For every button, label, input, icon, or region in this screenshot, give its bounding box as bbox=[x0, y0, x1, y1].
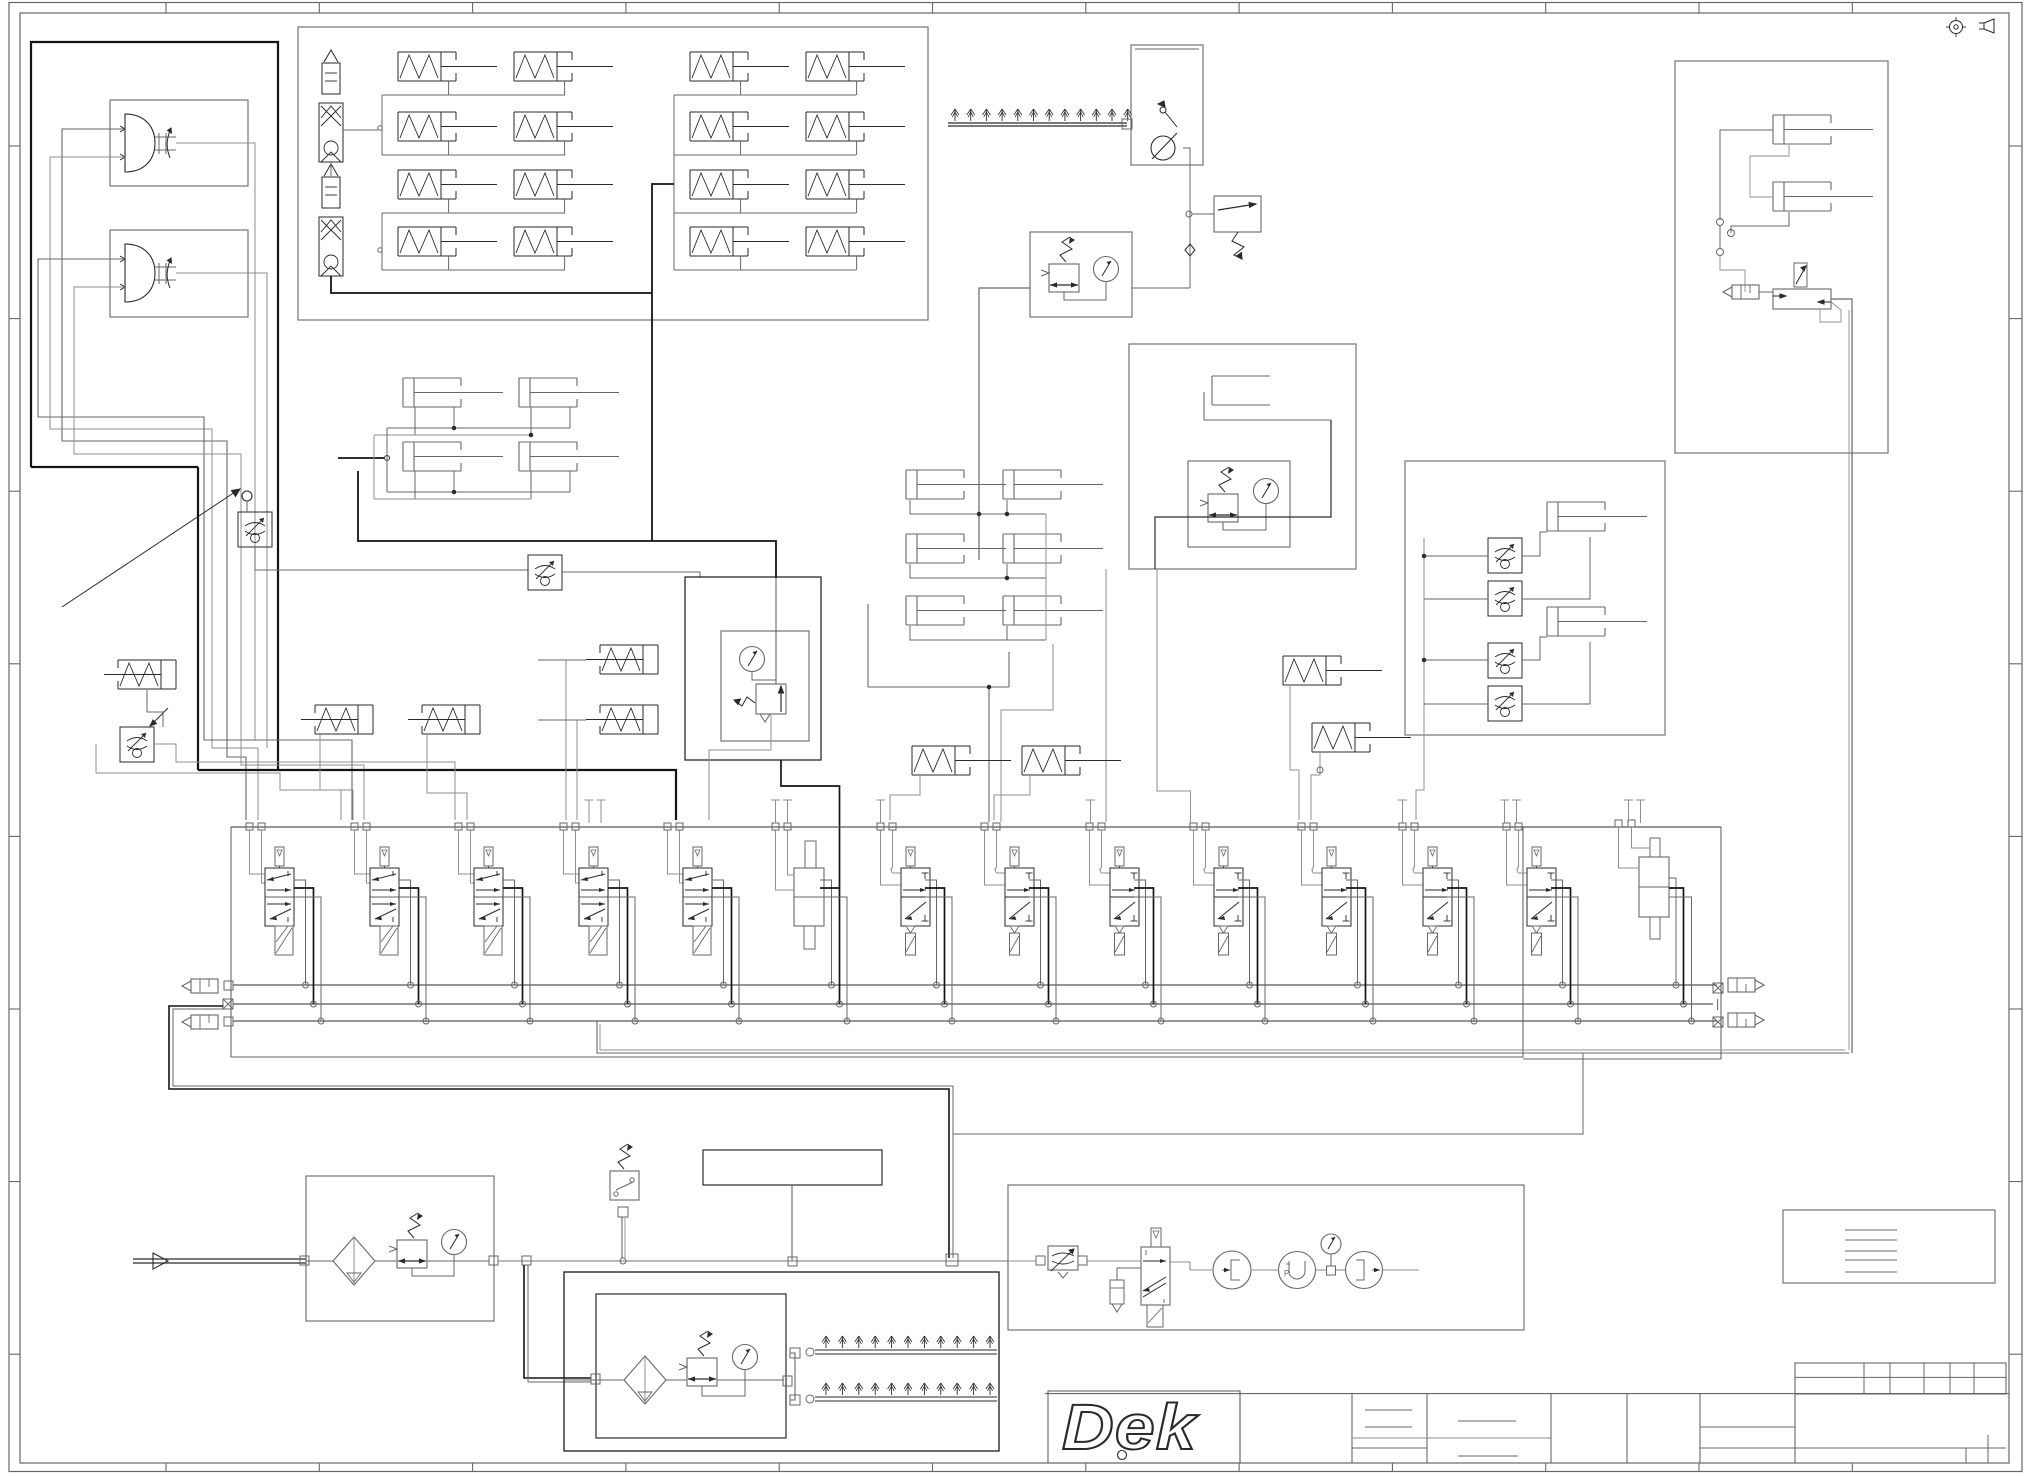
clamp bracket symbol bbox=[1204, 376, 1331, 420]
station 11 drops bbox=[1346, 880, 1376, 1024]
supply feed double line left bbox=[169, 1006, 953, 1258]
cylinder TR1 bbox=[1773, 115, 1873, 144]
cylinder C32 stem bbox=[740, 141, 742, 155]
TR outlet wire bbox=[1831, 299, 1852, 1053]
wire across to FC2 bbox=[345, 569, 528, 571]
station 8 drops bbox=[1029, 880, 1059, 1024]
TR valve setting arrow bbox=[1794, 263, 1807, 287]
air supply inlet arrow bbox=[133, 1253, 306, 1269]
two-pressure valve V1 body bbox=[120, 114, 155, 172]
aux line to right bbox=[953, 1053, 1583, 1134]
cylinder C34 stem bbox=[740, 256, 742, 270]
top right enclosure bbox=[1675, 61, 1888, 453]
station 13 drops bbox=[1551, 880, 1581, 1024]
BR reg connectors bbox=[1036, 1256, 1087, 1265]
FRL1 box bbox=[306, 1176, 494, 1321]
cylinder C33 stem bbox=[740, 199, 742, 213]
flow control H21 bbox=[1488, 643, 1522, 678]
right exhaust silencer 1 bbox=[1728, 978, 1764, 992]
valve station 12 (3/2) bbox=[1399, 823, 1452, 955]
PS1 zigzag bbox=[618, 1144, 633, 1169]
cylinder C13 stem bbox=[448, 199, 450, 213]
valve station 14 block bbox=[1615, 820, 1669, 939]
station 14 drops bbox=[1669, 878, 1695, 1024]
black stub node bbox=[338, 456, 390, 461]
spring cylinder C34 bbox=[690, 227, 789, 256]
station 2 drops bbox=[399, 880, 429, 1024]
SL5 feed bbox=[576, 720, 578, 820]
filter check unit FU2 bbox=[319, 164, 343, 276]
group AB risers bbox=[374, 428, 387, 499]
FRL1 filter bbox=[333, 1237, 375, 1285]
flow control H22 bbox=[1488, 686, 1522, 721]
group B collectors bbox=[374, 471, 570, 499]
pressure switch PS1 bbox=[610, 1171, 639, 1200]
SL5 rod line bbox=[538, 719, 586, 721]
right exhaust silencer 2 bbox=[1728, 1013, 1764, 1027]
FRL3 relief zigzag bbox=[1219, 467, 1234, 492]
nozzle bar connector bbox=[1122, 119, 1132, 129]
mid box gauge stem bbox=[752, 672, 776, 680]
FU1 output wire bbox=[343, 129, 378, 131]
cylinder C41 stem bbox=[856, 81, 858, 95]
left box wire bundle 1 bbox=[62, 129, 246, 820]
spring cylinder CL1 bbox=[104, 660, 176, 689]
wire FC3 output bbox=[154, 744, 455, 820]
border zone ticks bottom bbox=[166, 1463, 1852, 1472]
lower regulator bbox=[679, 1358, 717, 1386]
wire FC1 down bbox=[255, 547, 345, 570]
valve V1 output restrictor bbox=[155, 128, 176, 158]
lower filter bbox=[624, 1356, 666, 1404]
cylinder A2 bbox=[519, 378, 619, 407]
left silencer 2 connector bbox=[224, 1017, 233, 1026]
BR valve pilot bbox=[1151, 1228, 1161, 1247]
FRL3 box bbox=[1188, 461, 1290, 547]
nozzle bar B bbox=[815, 1383, 997, 1401]
lower gauge bbox=[733, 1345, 758, 1370]
SL4 feed bbox=[565, 660, 567, 820]
left box wire bundle 4 bbox=[74, 287, 364, 820]
mid box black outlet bbox=[781, 760, 840, 888]
BR flow sensor U bbox=[1279, 1252, 1316, 1289]
black drop from top box bbox=[651, 293, 653, 541]
FRL1 regulator bbox=[389, 1240, 427, 1268]
mid box outlet bbox=[709, 714, 771, 820]
spring cylinder C12 bbox=[398, 112, 497, 141]
spring cylinder C33 bbox=[690, 170, 789, 199]
FU1 to FU2 wire bbox=[330, 162, 332, 176]
FRL2 relief zigzag bbox=[1060, 237, 1075, 262]
TR wiring bbox=[1717, 130, 1790, 292]
BR valve body bbox=[1141, 1247, 1170, 1305]
spring cylinder C11 bbox=[398, 52, 497, 81]
supply junction node bbox=[946, 1254, 958, 1266]
title block main bbox=[1045, 1391, 2009, 1463]
FRL1 inlet connector bbox=[300, 1256, 309, 1265]
cylinder B2 bbox=[519, 442, 619, 471]
left box wire bundle 2 bbox=[50, 157, 258, 820]
FRL2 internal wire bbox=[1064, 282, 1106, 300]
bottom right box bbox=[1008, 1185, 1524, 1330]
flow control H12 bbox=[1488, 581, 1522, 616]
SL2 feed bbox=[320, 735, 353, 820]
cylinder C42 stem bbox=[856, 141, 858, 155]
lower nozzle unit box bbox=[564, 1272, 999, 1451]
branch to lower unit bbox=[524, 1265, 591, 1382]
nozzle connector B bbox=[790, 1395, 800, 1405]
filter check unit FU1 bbox=[319, 50, 343, 162]
mid gauge bbox=[740, 647, 765, 672]
cylinder C43 stem bbox=[856, 199, 858, 213]
flow control H11 bbox=[1488, 538, 1522, 573]
station 9 drops bbox=[1134, 880, 1164, 1024]
FRL3 crossing wire bbox=[1155, 420, 1331, 569]
FRL3 gauge bbox=[1254, 479, 1279, 504]
spring cylinder SR3 bbox=[1283, 656, 1382, 685]
station 4 drops bbox=[608, 880, 638, 1024]
FRL2 gauge bbox=[1094, 257, 1119, 282]
check node diamond bbox=[1185, 244, 1195, 256]
two-pressure valve V2 body bbox=[120, 244, 155, 302]
spring cylinder C13 bbox=[398, 170, 497, 199]
work rail 1 bbox=[233, 984, 1717, 986]
station 12 drops bbox=[1447, 880, 1477, 1024]
wire node to FC1 bbox=[246, 501, 248, 512]
vacuum unit lever bbox=[1158, 101, 1177, 127]
black wire to station 5 bbox=[198, 770, 676, 820]
cylinder C21 stem bbox=[564, 81, 566, 95]
left silencer 1 connector bbox=[224, 981, 233, 990]
FRL3 regulator bbox=[1200, 494, 1238, 522]
vacuum unit box bbox=[1131, 45, 1203, 165]
valve station 7 (3/2) bbox=[877, 823, 930, 955]
FRL2 box top bbox=[1030, 232, 1132, 317]
black cross wire bbox=[358, 471, 776, 578]
FRL1 wires bbox=[306, 1255, 489, 1276]
spring cylinder C24 bbox=[514, 227, 613, 256]
lower unit wires bbox=[564, 1353, 795, 1400]
nozzle bar A bbox=[815, 1336, 997, 1354]
flow control FC2 bbox=[528, 555, 562, 590]
spring cylinder SL3 bbox=[408, 705, 480, 734]
H box feed bbox=[1416, 723, 1424, 820]
spring cylinder C21 bbox=[514, 52, 613, 81]
SL4 rod line bbox=[538, 659, 586, 661]
BR chain wires bbox=[1008, 1261, 1419, 1270]
SR2 feed bbox=[994, 776, 1030, 820]
cylinder H2 bbox=[1547, 607, 1647, 636]
valve station 1 (5/2) bbox=[246, 823, 294, 955]
station 10 drops bbox=[1238, 880, 1268, 1024]
BR gauge stem connector bbox=[1327, 1254, 1336, 1275]
cylinder group G bbox=[906, 470, 1103, 625]
valve station 13 (3/2) bbox=[1503, 823, 1556, 955]
label rectangle bbox=[703, 1150, 882, 1185]
arrow into FC3 bbox=[150, 708, 168, 726]
spring cylinder C42 bbox=[806, 112, 905, 141]
spring cylinder SR4 bbox=[1312, 723, 1411, 752]
right plug X 2 bbox=[1713, 1017, 1723, 1027]
spring cylinder SR1 bbox=[912, 746, 1011, 775]
nozzle circle B bbox=[806, 1395, 814, 1403]
valve station 4 (5/2) bbox=[560, 823, 608, 955]
svg-text:P: P bbox=[1284, 1269, 1289, 1278]
spring cylinder C32 bbox=[690, 112, 789, 141]
cylinder B1 bbox=[403, 442, 503, 471]
spring cylinder C44 bbox=[806, 227, 905, 256]
label stem connector bbox=[788, 1257, 797, 1266]
manifold right edge bbox=[1720, 827, 1722, 1059]
BR gauge small bbox=[1321, 1234, 1341, 1254]
supply line main bbox=[498, 1260, 1008, 1262]
spring cylinder SL4 bbox=[586, 645, 658, 674]
valve station 5 (5/2) bbox=[664, 823, 712, 955]
SR3 feed bbox=[1290, 686, 1299, 820]
regulator R1 top right bbox=[1186, 196, 1261, 259]
projection symbol top right bbox=[1979, 19, 1994, 33]
flow control box H bbox=[1405, 461, 1665, 735]
clamp unit box bbox=[1129, 344, 1356, 569]
mid box feed wire bbox=[775, 578, 777, 684]
valve station 8 (3/2) bbox=[981, 823, 1034, 955]
left exhaust silencer 1 bbox=[182, 979, 218, 993]
flow control FC3 bbox=[120, 727, 154, 762]
group G feed B bbox=[1001, 644, 1053, 822]
left exhaust silencer 2 bbox=[182, 1015, 218, 1029]
spring cylinder C14 bbox=[398, 227, 497, 256]
FRL2 outlet wire down bbox=[979, 288, 1030, 560]
spring cylinder SL5 bbox=[586, 705, 658, 734]
mid regulator zigzag bbox=[734, 697, 755, 706]
sub-box shuttle valve V2 bbox=[110, 230, 248, 317]
spring cylinder C31 bbox=[690, 52, 789, 81]
BR regulator bbox=[1048, 1246, 1078, 1278]
FRL3 internal wire bbox=[1223, 504, 1266, 530]
DEK logo box bbox=[1048, 1391, 1240, 1463]
BR silencer vertical bbox=[1110, 1268, 1141, 1312]
left enclosure box thick outline bbox=[31, 42, 278, 770]
mid gauge box inner bbox=[721, 631, 809, 741]
border zone ticks right bbox=[2009, 146, 2022, 1354]
station 6 drops bbox=[820, 880, 850, 1024]
AND2 output wire bbox=[176, 273, 267, 748]
mid gauge box outer bbox=[685, 577, 821, 760]
spring cylinder C23 bbox=[514, 170, 613, 199]
top cylinder group box bbox=[298, 27, 928, 320]
cylinder A1 bbox=[403, 378, 503, 407]
cylinder C14 stem bbox=[448, 256, 450, 270]
cylinder C11 stem bbox=[448, 81, 450, 95]
FRL2 inlet from regulator R1 bbox=[1132, 287, 1190, 289]
TR valve silencer bbox=[1723, 285, 1759, 299]
station 7 drops bbox=[925, 880, 955, 1024]
group G loop wires bbox=[910, 500, 1046, 640]
cylinder TR2 bbox=[1773, 182, 1873, 211]
FRL2 regulator bbox=[1041, 264, 1079, 292]
valve station 11 (3/2) bbox=[1298, 823, 1351, 955]
valve station 3 (5/2) bbox=[455, 823, 503, 955]
FRL1 outlet connector bbox=[489, 1256, 498, 1265]
TR valve body bbox=[1773, 289, 1841, 322]
exhaust run bottom bbox=[597, 1021, 1849, 1053]
wire FC3 left loop bbox=[96, 744, 341, 820]
FU2 black outlet wire bbox=[331, 184, 674, 293]
left box wire bundle 3 bbox=[38, 259, 352, 820]
FRL3 feed down bbox=[1106, 569, 1191, 822]
station 3 drops bbox=[503, 880, 533, 1024]
spring cylinder C41 bbox=[806, 52, 905, 81]
valve station 9 (3/2) bbox=[1086, 823, 1139, 955]
wire vacuum to regulator bbox=[1183, 148, 1190, 288]
SL3 feed bbox=[427, 735, 467, 820]
branch connector bbox=[522, 1256, 531, 1265]
setpoint node circle bbox=[242, 491, 252, 501]
sub-box shuttle valve V1 bbox=[110, 100, 248, 186]
nozzle circle A bbox=[806, 1348, 814, 1356]
flow control FC1 bbox=[238, 512, 272, 547]
cylinder C24 stem bbox=[564, 256, 566, 270]
revision box bbox=[1783, 1210, 1995, 1283]
BR flow sensor 1 bbox=[1213, 1251, 1251, 1289]
exhaust rail 3 bbox=[233, 1020, 1717, 1022]
registration target icon top right bbox=[1946, 17, 1966, 37]
SR4 feed bbox=[1311, 753, 1323, 820]
BR flow sensor 2 bbox=[1346, 1252, 1383, 1289]
group A collectors bbox=[374, 407, 570, 437]
label stem bbox=[791, 1185, 793, 1261]
spring cylinder C22 bbox=[514, 112, 613, 141]
FRL1 relief zigzag bbox=[408, 1213, 423, 1238]
supply rail 2 bbox=[233, 999, 1718, 1010]
station 1 drops bbox=[294, 880, 324, 1024]
wire FC2 right bbox=[562, 572, 700, 578]
svg-text:Dek: Dek bbox=[1062, 1392, 1199, 1464]
lower relief zigzag bbox=[698, 1331, 713, 1356]
AND1 output wire bbox=[176, 143, 255, 741]
spring cylinder C43 bbox=[806, 170, 905, 199]
mid regulator bbox=[756, 684, 786, 722]
cylinder C12 stem bbox=[448, 141, 450, 155]
cylinder H1 bbox=[1547, 502, 1647, 531]
diagonal setpoint arrow bbox=[62, 489, 240, 607]
left group collectors bbox=[378, 95, 565, 270]
group G feed A bbox=[868, 604, 1009, 822]
pilot pins above rail bbox=[585, 800, 1646, 823]
vacuum unit gauge bbox=[1151, 133, 1177, 160]
cylinder C31 stem bbox=[740, 81, 742, 95]
cylinder C44 stem bbox=[856, 256, 858, 270]
wire CL1 to FC3 bbox=[147, 690, 163, 727]
PS1 stem bbox=[618, 1207, 628, 1264]
nozzle connector A bbox=[790, 1348, 800, 1358]
TR outlet wire inner bbox=[1848, 310, 1850, 1050]
FRL1 gauge bbox=[442, 1230, 467, 1255]
lower inner box bbox=[596, 1294, 786, 1438]
BR valve solenoid bbox=[1147, 1305, 1163, 1327]
cylinder C22 stem bbox=[564, 141, 566, 155]
H box wiring bbox=[1422, 532, 1590, 723]
spring cylinder SR2 bbox=[1022, 746, 1121, 775]
manifold bottom right ext bbox=[1523, 1058, 1721, 1060]
valve station 10 (3/2) bbox=[1190, 823, 1243, 955]
TR silencer link bbox=[1759, 291, 1773, 293]
spring cylinder SL2 bbox=[301, 705, 373, 734]
title block right table bbox=[1795, 1363, 2006, 1463]
manifold enclosure bbox=[231, 827, 1523, 1057]
border zone ticks left bbox=[9, 146, 20, 1354]
station 5 drops bbox=[712, 880, 742, 1024]
valve station 2 (5/2) bbox=[351, 823, 399, 955]
left plug X bbox=[223, 999, 233, 1009]
manifold top rail bbox=[231, 826, 1721, 828]
valve station 6 (2/2) bbox=[772, 823, 824, 949]
DEK logo text bbox=[1062, 1392, 1199, 1464]
cylinder C23 stem bbox=[564, 199, 566, 213]
right plug X 1 bbox=[1713, 983, 1723, 993]
right group collectors bbox=[674, 95, 856, 270]
border zone ticks top bbox=[166, 3, 1852, 14]
SR1 feed bbox=[890, 776, 920, 820]
nozzle bar top bbox=[948, 109, 1132, 126]
valve V2 output restrictor bbox=[155, 258, 176, 288]
